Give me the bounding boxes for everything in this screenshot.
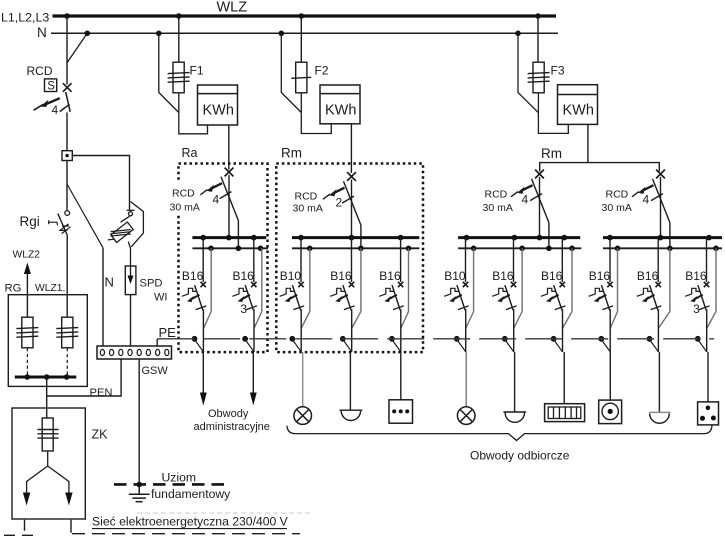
heater box r3: [545, 404, 585, 422]
node PE tap: [647, 336, 653, 342]
svg-text:B10: B10: [444, 269, 466, 283]
svg-text:PEN: PEN: [90, 387, 113, 399]
GSW terminal strip: [97, 346, 172, 359]
fuse F3: [528, 62, 550, 93]
ZK fuse: [38, 418, 59, 451]
wire earthing conductor: [138, 359, 140, 485]
wire breaker output: [465, 309, 467, 352]
wire fuse to SPD: [121, 216, 131, 266]
wire PE tap diagonal: [505, 340, 514, 352]
board Rm dotted border: [276, 164, 423, 353]
F1 branch: wire L: [178, 16, 180, 62]
node right N bus: [471, 246, 477, 252]
F2 branch: wire L: [300, 16, 302, 62]
svg-text:Obwody odbiorcze: Obwody odbiorcze: [470, 449, 570, 463]
wire PE tap diagonal: [457, 340, 466, 352]
wire N drop: [514, 248, 522, 328]
KWh meter 3: [558, 85, 598, 125]
socket r5 arc: [650, 413, 670, 423]
fuse F2: [291, 62, 311, 93]
wire N drop: [659, 248, 670, 328]
dashed links to PEN bar: [27, 348, 67, 377]
svg-text:Rm: Rm: [541, 146, 562, 161]
junction box: [62, 151, 72, 161]
wire N drop: [466, 248, 474, 328]
wire L drop to breaker B10 x465.5: [465, 238, 467, 282]
wire N drop: [352, 248, 361, 328]
WLZ2 riser arrow: [26, 273, 28, 318]
wire main feeder down from L bus: [66, 16, 68, 85]
svg-text:B16: B16: [182, 269, 204, 283]
svg-text:B10: B10: [280, 269, 302, 283]
wire N drop: [254, 248, 262, 328]
wire N drop: [707, 248, 716, 328]
R-left L busbar: [458, 236, 580, 239]
node on N bus x158.8: [156, 31, 162, 37]
svg-text:F3: F3: [551, 64, 565, 78]
faint scan dash line: [137, 512, 310, 514]
arrow admin circuit: [200, 393, 207, 406]
wire to 3dot box m3: [400, 352, 402, 400]
wire RG to ZK: [46, 377, 48, 418]
svg-text:WLZ2: WLZ2: [13, 250, 41, 261]
wire PE drop to GSW: [156, 339, 158, 346]
SPD arrow: [130, 267, 132, 277]
node Rm L bus: [398, 235, 404, 241]
Rgi blade: [58, 214, 67, 236]
svg-text:KWh: KWh: [203, 103, 234, 119]
svg-text:RG: RG: [5, 283, 22, 295]
svg-text:RCD: RCD: [172, 188, 195, 200]
socket m2: [340, 410, 363, 420]
wire PE tap diagonal: [195, 340, 204, 352]
svg-text:B16: B16: [233, 269, 255, 283]
wire PE distribution dash line: [157, 338, 714, 340]
svg-text:30 mA: 30 mA: [293, 203, 323, 215]
R-right N busbar: [603, 247, 722, 249]
node PEN bar right: [64, 374, 70, 380]
wire L1,L2,L3 bus: [53, 14, 557, 17]
wire L drop to breaker B16 x610: [609, 238, 611, 282]
node on L bus x301.3: [299, 13, 305, 19]
wire split bar: [540, 163, 660, 172]
spark gap tick and electrode: [127, 209, 135, 211]
wire breaker output: [300, 309, 302, 352]
underline: [92, 528, 287, 530]
wire L drop to breaker B10 x301: [300, 238, 302, 282]
node on N bus x87: [85, 31, 91, 37]
node PE tap: [389, 336, 395, 342]
node Rm N bus: [307, 246, 313, 252]
ZK arrow left: [23, 493, 30, 506]
fuse WLZ1: [56, 317, 78, 348]
SPD box: [125, 266, 136, 295]
svg-text:PE: PE: [159, 325, 177, 340]
RCD right-1: [511, 170, 549, 223]
F3 branch: wire L: [537, 16, 539, 62]
svg-text:WI: WI: [154, 292, 167, 304]
round socket r4: [599, 400, 622, 424]
wire RCD N to bus: [237, 221, 239, 249]
wire N to meter 2: [281, 33, 301, 112]
ZK box: [12, 408, 85, 519]
node on N bus x518: [515, 31, 521, 37]
node on N bus x281.3: [279, 31, 285, 37]
node PE tap: [289, 336, 295, 342]
wire PE tap diagonal: [392, 340, 401, 352]
node right L bus: [512, 235, 518, 241]
switch S box of main RCD: [45, 79, 57, 92]
svg-text:RCD: RCD: [485, 189, 508, 201]
wire N to meter 3: [518, 33, 538, 112]
KWh meter 1: [198, 85, 238, 125]
wire RCD L to bus: [228, 175, 230, 238]
wire Rgi to RG box: [66, 235, 68, 317]
svg-text:30 mA: 30 mA: [602, 202, 632, 214]
lamp r1: [457, 407, 475, 425]
node PEN bar mid: [44, 374, 50, 380]
breaker B16: [589, 282, 614, 311]
svg-text:B16: B16: [589, 269, 611, 283]
svg-text:KWh: KWh: [325, 103, 356, 119]
wire fuse F1 to meter: [179, 93, 208, 134]
svg-text:2: 2: [336, 196, 343, 210]
wire N drop: [563, 248, 572, 328]
wire N riser diagonal to GSW: [67, 184, 103, 248]
svg-text:B16: B16: [330, 269, 352, 283]
node PE tap: [695, 336, 701, 342]
wire RCD L to bus: [660, 177, 662, 238]
node right L bus: [537, 235, 543, 241]
wire L drop to breaker B16 x400.6: [400, 238, 402, 282]
svg-text:4: 4: [522, 193, 529, 207]
RCD right-2: [632, 170, 670, 223]
breaker B16: [379, 282, 404, 311]
ZK arrow right: [65, 493, 72, 506]
svg-text:KWh: KWh: [563, 103, 594, 119]
RCD Rm: [323, 172, 361, 225]
svg-text:RCD: RCD: [606, 189, 629, 201]
svg-text:3: 3: [693, 302, 700, 316]
node PE tap: [598, 336, 604, 342]
wire PE tap diagonal: [650, 340, 659, 352]
wire L drop to breaker B16 x513.5: [513, 238, 515, 282]
die socket box r6: [698, 402, 719, 425]
wire L drop to breaker B16 x562.3: [561, 238, 563, 282]
wire below main RCD: [66, 113, 68, 152]
svg-text:Uziom: Uziom: [162, 471, 197, 485]
R-left N busbar: [458, 247, 581, 249]
breaker B16: [541, 282, 566, 311]
wire PE tap diagonal: [245, 340, 254, 352]
svg-text:B16: B16: [492, 269, 514, 283]
svg-text:ZK: ZK: [92, 428, 109, 442]
wire N drop: [301, 248, 309, 328]
wire RCD N to bus: [360, 225, 362, 248]
nodes Ra L bus: [200, 235, 206, 241]
node right N bus: [546, 246, 552, 252]
Rm N busbar: [292, 247, 419, 249]
node on L bus x67: [64, 13, 70, 19]
wire outgoing admin circuit: [202, 352, 204, 393]
node right L bus: [706, 235, 712, 241]
wire N bus: [51, 32, 558, 34]
breaker B16: [685, 282, 710, 311]
wire meter 3 down: [587, 124, 589, 162]
wire L drop to breaker B16 x351.5: [351, 238, 353, 282]
wire to heater r3: [563, 352, 565, 404]
wire breaker output: [706, 309, 708, 352]
svg-text:B16: B16: [541, 269, 563, 283]
wire to die socket r6: [707, 352, 709, 402]
svg-text:WLZ1.: WLZ1.: [35, 283, 65, 294]
fuse WLZ2: [16, 317, 38, 348]
breaker B10: [444, 282, 469, 311]
svg-text:fundamentowy: fundamentowy: [151, 487, 231, 501]
wire PE tap diagonal: [292, 340, 301, 352]
svg-text:4: 4: [643, 193, 650, 207]
wire to round socket r4: [609, 352, 611, 400]
node on L bus x538: [535, 13, 541, 19]
svg-text:F2: F2: [315, 64, 329, 78]
R-right L busbar: [603, 236, 722, 239]
node PE tap: [454, 336, 460, 342]
node right N bus: [615, 246, 621, 252]
3-dot socket box m3: [389, 400, 413, 423]
node earth: [136, 482, 142, 488]
fuse F1: [168, 62, 190, 93]
wire ZK fork: [27, 451, 69, 493]
Rgi switch contact: [65, 211, 70, 216]
svg-text:RCD: RCD: [295, 191, 318, 203]
svg-text:Rgi: Rgi: [20, 214, 40, 229]
wire breaker output: [351, 309, 353, 352]
wire to socket r2: [514, 352, 516, 412]
arrester fuse hatch: [108, 230, 131, 240]
node PEN bar left: [24, 374, 30, 380]
wire PE tap diagonal: [343, 340, 352, 352]
svg-text:3: 3: [240, 302, 247, 316]
foundation earth dashed bar: [114, 483, 229, 486]
wire N riser vertical: [102, 248, 104, 346]
svg-text:SPD: SPD: [140, 278, 163, 290]
svg-text:B16: B16: [637, 269, 659, 283]
RCD Ra: [200, 168, 238, 221]
wire L drop to breaker B16 x658.2: [657, 238, 659, 282]
svg-text:L1,L2,L3: L1,L2,L3: [1, 11, 49, 25]
Rgi double slash: [59, 224, 70, 234]
wire N tap diagonal: [67, 33, 87, 63]
socket r2: [503, 412, 526, 422]
node right N bus: [713, 246, 719, 252]
node right L bus: [562, 235, 568, 241]
svg-text:Rm: Rm: [281, 146, 302, 161]
svg-text:Ra: Ra: [182, 146, 198, 160]
wire meter 2 to Rm: [350, 124, 352, 173]
wire fuse F3 to meter: [538, 93, 568, 133]
breaker B10: [280, 282, 305, 311]
wire fuse F2 to meter: [301, 93, 331, 134]
breaker B16: [330, 282, 355, 311]
svg-text:Obwody: Obwody: [208, 408, 249, 420]
node on L bus x178.8: [176, 13, 182, 19]
svg-text:Sieć elektroenergetyczna 230/4: Sieć elektroenergetyczna 230/400 V: [92, 515, 289, 529]
svg-text:30 mA: 30 mA: [483, 202, 513, 214]
arrow admin circuit: [250, 393, 257, 406]
svg-text:30 mA: 30 mA: [170, 202, 200, 214]
breaker B16: [182, 282, 207, 311]
wire L drop to breaker B16 x203.2: [202, 238, 204, 282]
node PE tap: [192, 336, 198, 342]
PEN bar in RG: [15, 376, 77, 379]
node Rm N bus: [358, 246, 364, 252]
wire PE tap diagonal: [554, 340, 563, 352]
brace obwody odbiorcze: [287, 425, 712, 440]
wire L drop to breaker B16 x706.5: [706, 238, 708, 282]
wire RCD N to bus: [669, 223, 671, 249]
node PE tap: [551, 336, 557, 342]
lamp m1: [294, 407, 312, 425]
wire RCD N to bus: [548, 223, 550, 249]
KWh meter 2: [320, 85, 360, 124]
border gap for labels: [171, 181, 181, 214]
wire L drop to breaker B16 x253.8: [253, 238, 255, 282]
svg-text:4: 4: [213, 193, 220, 207]
wire RCD L to bus: [539, 177, 541, 238]
node Rm N bus: [406, 246, 412, 252]
node Rm L bus: [349, 235, 355, 241]
wire meter 1 to Ra: [228, 125, 230, 170]
wire breaker output: [562, 309, 564, 352]
node right L bus: [658, 235, 664, 241]
svg-text:S: S: [47, 81, 55, 93]
wire to lamp r1: [465, 352, 467, 407]
wire outgoing admin circuit: [252, 352, 254, 393]
wire junction box to Rgi: [66, 161, 68, 211]
Ra N busbar: [192, 247, 268, 249]
wire PE tap diagonal: [698, 340, 707, 352]
wire to socket m2: [349, 352, 351, 410]
wire breaker output: [202, 309, 204, 352]
wire breaker output: [609, 309, 611, 352]
node PE tap: [340, 336, 346, 342]
Ra L busbar: [192, 236, 266, 239]
wire breaker output: [513, 309, 515, 352]
board Ra dotted border: [179, 164, 268, 353]
node PE tap: [242, 336, 248, 342]
wire PEN link from GSW: [47, 359, 121, 396]
dashed service entries: [0, 520, 33, 536]
wire breaker output: [253, 309, 255, 352]
wire N drop: [401, 248, 409, 328]
wire RCD L to bus: [351, 180, 353, 238]
node right N bus: [519, 246, 525, 252]
wire to socket r5: [658, 352, 660, 412]
node right N bus: [569, 246, 575, 252]
node right N bus: [667, 246, 673, 252]
nodes Ra N bus: [208, 246, 214, 252]
wire PE tap diagonal: [601, 340, 610, 352]
svg-text:4: 4: [52, 103, 59, 117]
RG box: [8, 295, 87, 387]
svg-text:N: N: [105, 275, 114, 290]
wire N drop: [204, 248, 212, 328]
wire N drop: [610, 248, 617, 328]
wire N to meter 1: [159, 33, 179, 112]
breaker B16: [232, 282, 256, 311]
svg-text:N: N: [37, 25, 47, 40]
main RCD contact and blade: [34, 83, 72, 112]
svg-text:RCD: RCD: [27, 64, 53, 78]
Rm L busbar: [292, 236, 419, 239]
svg-text:F1: F1: [190, 64, 204, 78]
breaker B16: [637, 282, 662, 311]
wire breaker output: [400, 309, 402, 352]
node PE tap: [502, 336, 508, 342]
wire to lamp m1: [302, 352, 304, 407]
node right L bus: [607, 235, 613, 241]
svg-text:GSW: GSW: [142, 365, 169, 377]
breaker B16: [492, 282, 516, 311]
node right L bus: [464, 235, 470, 241]
wire junction box to arrester: [72, 156, 129, 211]
svg-text:administracyjne: administracyjne: [194, 421, 270, 433]
socket r5 gray bar: [649, 411, 670, 413]
node Rm L bus: [298, 235, 304, 241]
earth symbol: [129, 487, 150, 502]
wire SPD to GSW: [130, 295, 132, 346]
wire breaker output: [657, 309, 659, 352]
Rgi handle: [49, 220, 58, 225]
svg-text:WLZ: WLZ: [217, 0, 248, 16]
arrester bypass wire: [131, 202, 144, 247]
svg-text:B16: B16: [379, 269, 401, 283]
arrester diagonal fuse: [111, 222, 133, 242]
svg-text:B16: B16: [685, 269, 707, 283]
